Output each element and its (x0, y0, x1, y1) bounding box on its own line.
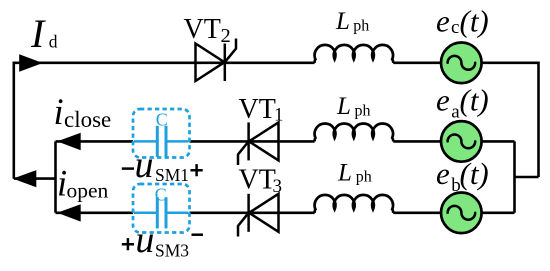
ac source e_b(t) (441, 193, 482, 234)
svg-text:open: open (67, 178, 109, 202)
wire: bottom row left segment (56, 212, 134, 215)
thyristor VT1 (238, 122, 279, 165)
svg-text:c: c (451, 17, 459, 38)
svg-text:ph: ph (355, 102, 371, 119)
svg-text:3: 3 (273, 176, 283, 197)
svg-text:ph: ph (353, 17, 369, 34)
wire: bottom row right segment (190, 212, 315, 215)
svg-text:(t): (t) (460, 4, 489, 39)
svg-text:u: u (135, 219, 154, 261)
label -u_SM1+ (122, 167, 134, 170)
capacitor cell SM1: dashed box (133, 109, 190, 158)
wire: right inner vertical (513, 141, 516, 212)
wire: e_a right segment (483, 140, 515, 143)
inductor L_ph (row 3) (315, 195, 394, 213)
capacitor C (SM1) (134, 126, 189, 157)
arrow: i_open row direction (left) (57, 204, 80, 221)
svg-text:SM1: SM1 (155, 165, 189, 185)
svg-text:ph: ph (356, 169, 372, 186)
svg-text:VT: VT (239, 94, 276, 125)
svg-text:i: i (54, 91, 64, 132)
svg-text:e: e (436, 4, 450, 39)
svg-text:C: C (156, 110, 168, 130)
inductor L_ph (row 2) (315, 123, 394, 141)
arrow: Id direction (right) (19, 54, 43, 71)
label +u_SM3- (122, 238, 134, 250)
thyristor VT3 (238, 194, 279, 237)
svg-text:close: close (64, 107, 111, 132)
ac source e_c(t) (441, 43, 482, 84)
wire: e_b right segment (483, 212, 515, 215)
wire: top row, inductor to source (393, 61, 441, 64)
svg-text:(t): (t) (460, 156, 489, 191)
wire: middle row left segment (56, 140, 134, 143)
svg-text:1: 1 (274, 105, 284, 126)
svg-text:C: C (155, 184, 167, 204)
svg-text:L: L (336, 93, 351, 120)
svg-text:VT: VT (239, 165, 276, 196)
capacitor cell SM3: dashed box (133, 184, 190, 233)
wire: right jog (515, 176, 539, 179)
wire: bottom row, inductor to source (393, 212, 441, 215)
arrow: i_close direction (left) (57, 133, 80, 150)
arrow: i_open feed (left) on jog (13, 170, 37, 187)
svg-text:L: L (337, 159, 352, 186)
svg-text:VT: VT (184, 14, 221, 45)
inductor L_ph (row 1) (315, 45, 394, 63)
svg-text:e: e (436, 83, 450, 118)
wire: left jog to i_open node (14, 177, 56, 180)
svg-text:I: I (30, 11, 46, 56)
wire: second left vertical bus (54, 141, 57, 212)
svg-text:L: L (335, 8, 350, 35)
thyristor VT2 (196, 39, 237, 82)
svg-text:SM3: SM3 (155, 241, 189, 261)
wire: left vertical bus (13, 62, 16, 179)
wire: middle row right segment (190, 140, 315, 143)
capacitor C (SM3) (134, 197, 189, 228)
wire: top row horizontal (phase c branch) (14, 61, 315, 64)
svg-text:(t): (t) (460, 83, 489, 118)
svg-text:u: u (135, 144, 154, 186)
svg-text:d: d (49, 31, 58, 51)
wire: middle row, inductor to source (393, 140, 441, 143)
ac source e_a(t) (441, 121, 482, 162)
svg-text:2: 2 (221, 25, 231, 47)
svg-text:e: e (436, 156, 450, 191)
wire: e_c right + far right vertical (483, 63, 539, 177)
